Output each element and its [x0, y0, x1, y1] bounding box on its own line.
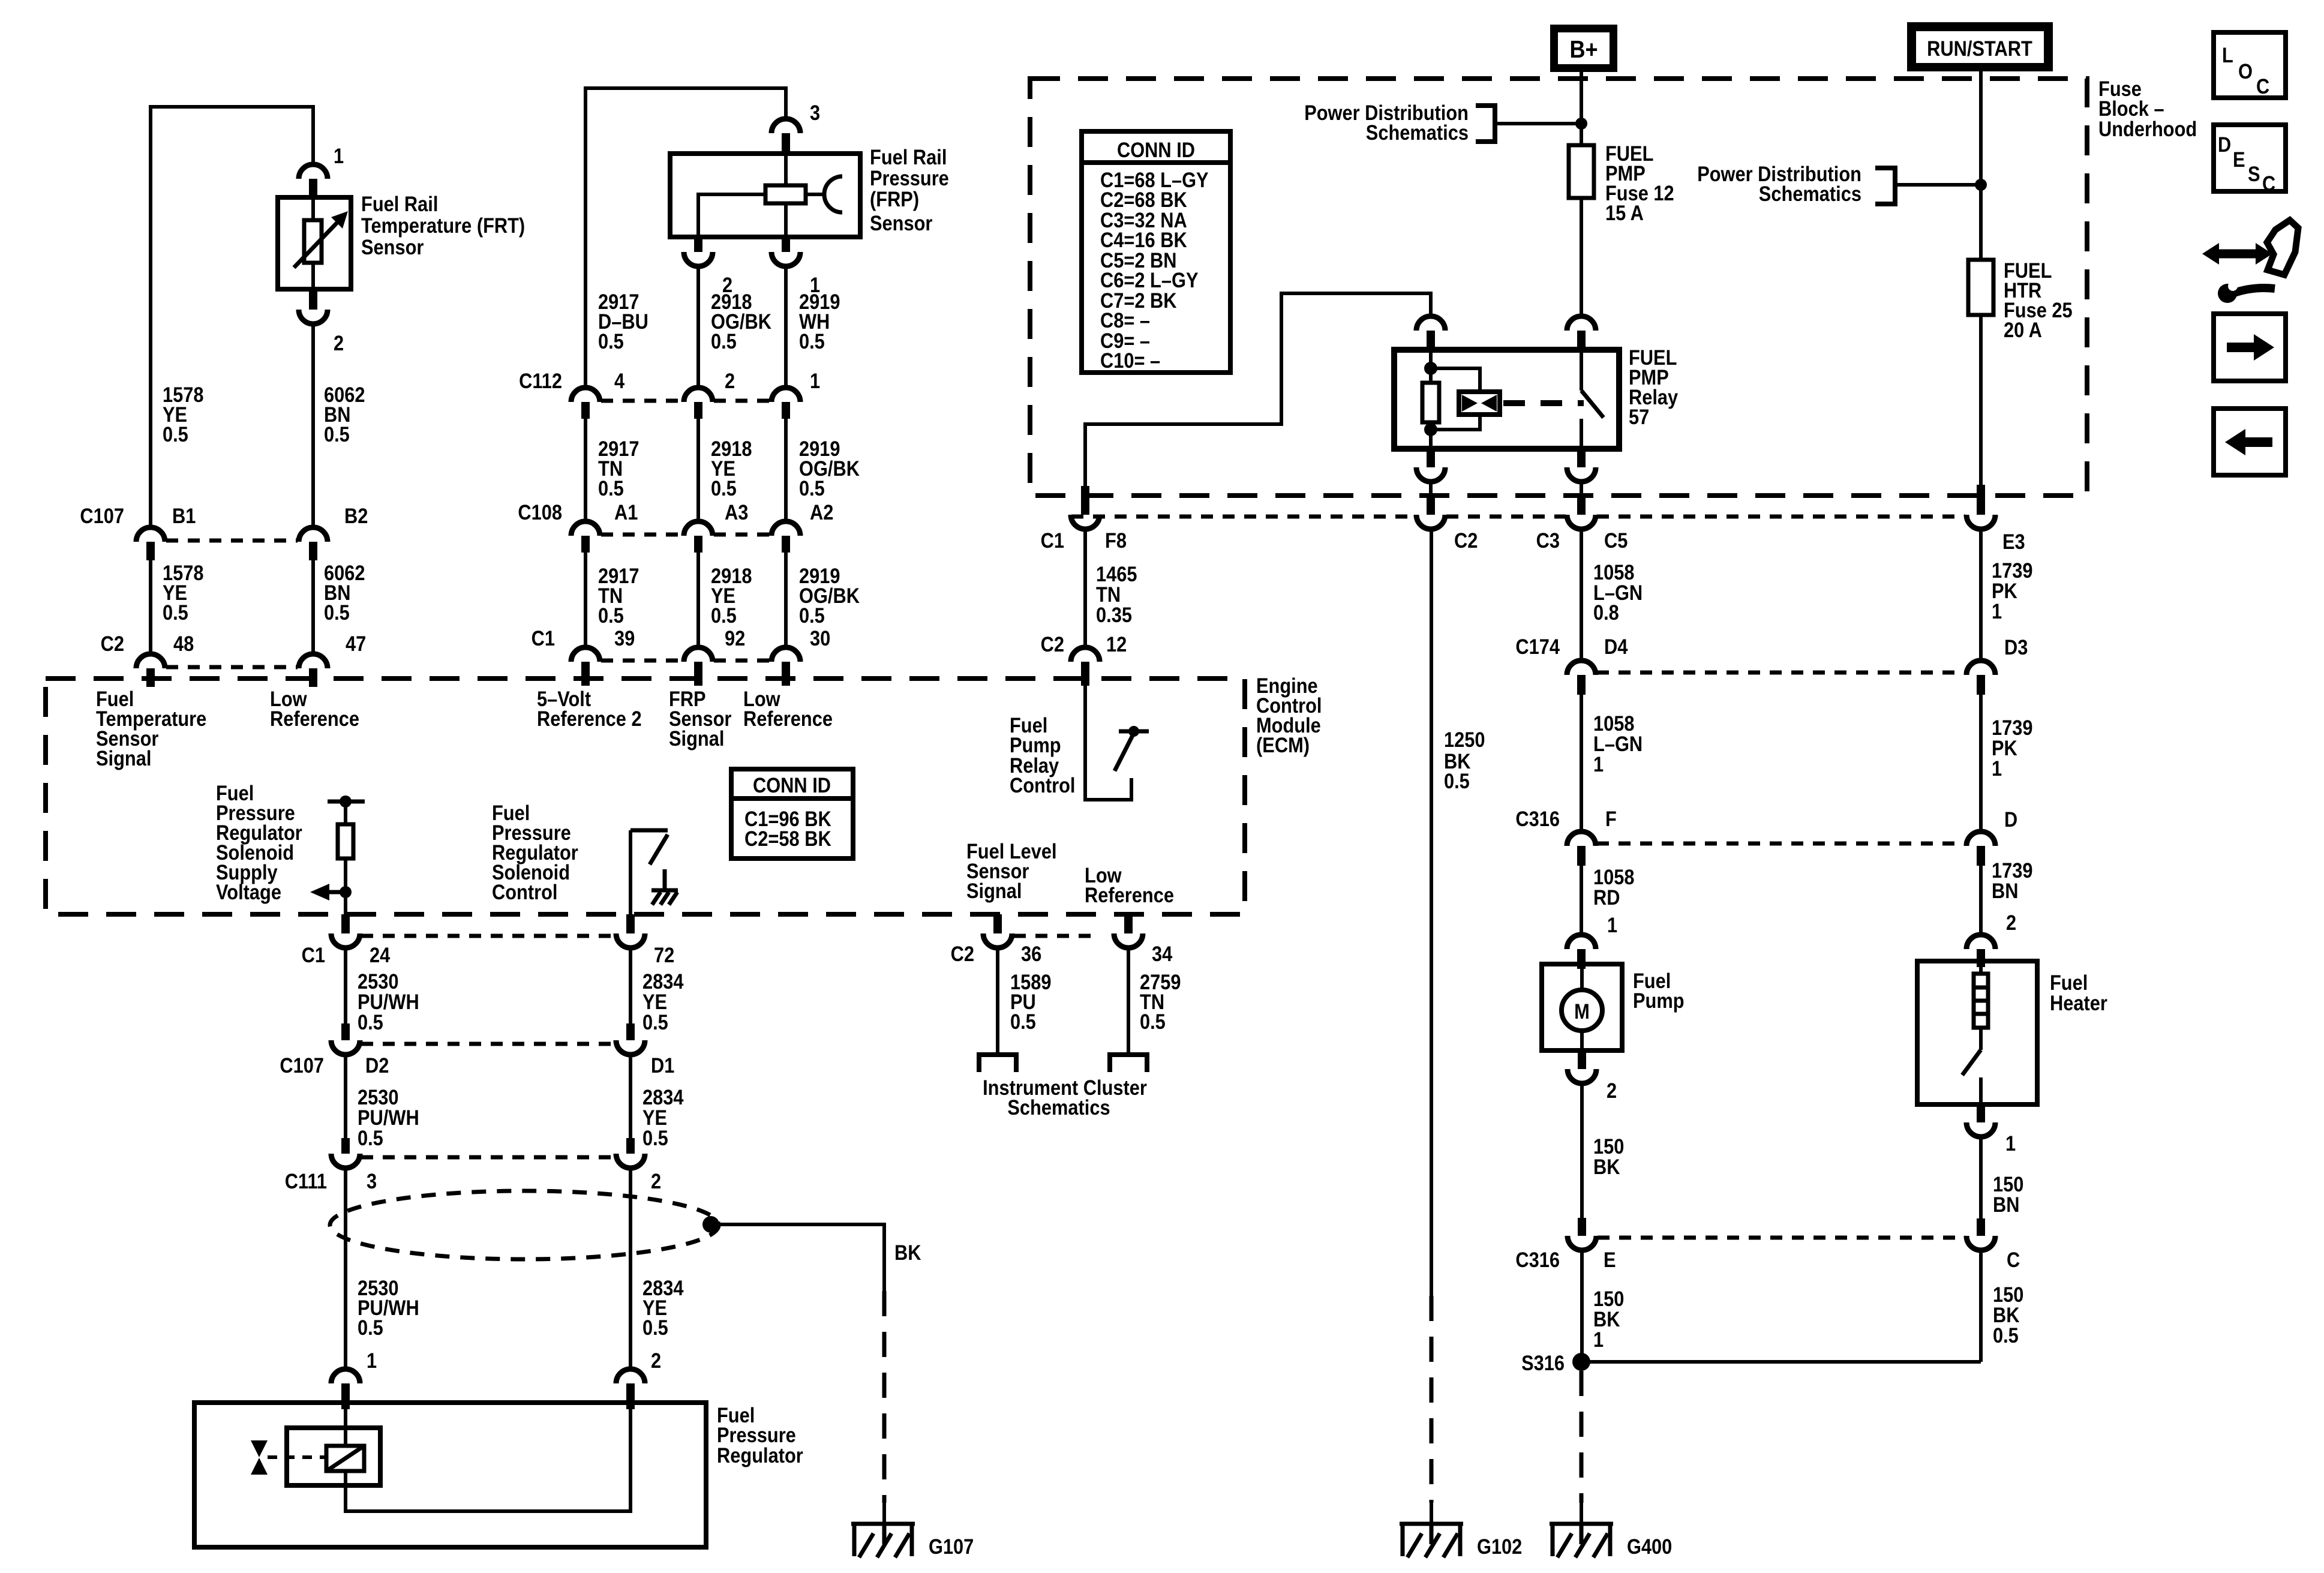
dashed connector line 48-47	[166, 665, 298, 670]
svg-text:D1: D1	[651, 1054, 674, 1077]
dashed connector line B1-B2	[166, 539, 298, 543]
fuse FUEL PMP Fuse 12 15A	[1569, 145, 1594, 198]
svg-text:BN: BN	[1992, 879, 2019, 903]
connector C112 pin 4	[571, 388, 600, 402]
connector pin 2 of FRT sensor	[309, 289, 317, 310]
connector C107 pin B2	[299, 527, 328, 542]
connector pin 3 of FRP sensor	[771, 119, 800, 133]
svg-text:Temperature (FRT): Temperature (FRT)	[361, 214, 525, 238]
connector C108 pin A2	[771, 521, 800, 536]
svg-text:2: 2	[334, 332, 344, 355]
relay coil bowtie box	[1459, 392, 1500, 415]
dashed connector line F-D	[1597, 842, 1965, 846]
svg-text:C2: C2	[951, 942, 974, 966]
svg-text:L: L	[2222, 44, 2233, 67]
svg-text:57: 57	[1629, 406, 1649, 429]
hidden wire S316 to G400	[1580, 1371, 1584, 1503]
svg-text:4: 4	[614, 370, 625, 393]
svg-text:Schematics: Schematics	[1759, 182, 1861, 206]
relay coil resistor	[1422, 383, 1439, 422]
connector C112 pin 1	[771, 388, 800, 402]
svg-text:D: D	[2004, 808, 2017, 831]
svg-text:BK: BK	[1593, 1155, 1620, 1179]
connector pin 1 of FRP sensor	[782, 237, 790, 252]
ECM CONN ID table	[731, 769, 853, 858]
dashed mechanical link valve-coil	[268, 1455, 326, 1459]
icon arrow left box	[2214, 409, 2286, 475]
svg-text:1: 1	[1593, 753, 1604, 776]
pressure port crescent	[824, 176, 842, 212]
ground G107	[882, 1503, 886, 1524]
wires below C111	[344, 1168, 347, 1369]
twisted-pair ellipse	[330, 1191, 719, 1259]
wire 1465 TN (F8 to ECM 12)	[1083, 530, 1087, 647]
wire RUN/START feed down	[1979, 71, 1983, 260]
svg-text:Control: Control	[1010, 774, 1076, 797]
connector ECM C1 pin 30	[771, 647, 800, 662]
wire 150 BN	[1979, 1137, 1983, 1218]
svg-text:Fuel Rail: Fuel Rail	[361, 193, 438, 216]
FRP sense resistor	[765, 185, 806, 203]
svg-text:BK: BK	[894, 1241, 921, 1265]
wire 2917 D-BU from C112 pin4 (left drop already drawn)	[696, 266, 700, 388]
connector relay pin 30 bottom right	[1577, 449, 1586, 467]
wire 150 BK 1 to S316	[1580, 1250, 1584, 1362]
svg-text:0.5: 0.5	[358, 1127, 383, 1150]
svg-text:48: 48	[173, 632, 194, 656]
off-page terminal pin 36	[979, 1055, 1016, 1072]
connector ECM C2 pin 47	[299, 654, 328, 668]
Fuel Pump box	[1542, 964, 1622, 1050]
svg-text:Reference: Reference	[1085, 884, 1174, 907]
wire 6062 BN from pin2 down to C107 B2	[311, 324, 315, 529]
wire 2530 PU/WH below pin 24	[344, 948, 347, 1023]
svg-text:0.5: 0.5	[642, 1127, 668, 1150]
connector fuse block C1/F8	[1081, 486, 1089, 515]
svg-text:1: 1	[367, 1349, 377, 1373]
svg-text:C: C	[2262, 172, 2275, 196]
svg-text:C2: C2	[101, 632, 124, 656]
svg-text:C316: C316	[1515, 807, 1560, 831]
svg-text:0.5: 0.5	[598, 477, 624, 500]
wire 1739 PK from E3 down	[1979, 530, 1983, 661]
connector relay switch pin (top right)	[1567, 316, 1596, 331]
fuel pump motor	[1580, 969, 1584, 1050]
wire supply branch	[344, 801, 347, 914]
svg-text:2: 2	[725, 370, 735, 393]
FRT sensor box	[278, 197, 351, 289]
Fuel Pressure Regulator box	[194, 1403, 706, 1547]
svg-text:C112: C112	[519, 370, 562, 393]
connector pin 1 of fuel heater	[1977, 1104, 1985, 1122]
FPR solenoid box	[287, 1428, 380, 1485]
wire 1578 YE below C107	[149, 560, 152, 654]
svg-text:Pump: Pump	[1633, 989, 1685, 1013]
dashed relay actuation link	[1503, 400, 1584, 406]
svg-text:C108: C108	[518, 501, 562, 524]
svg-text:2: 2	[651, 1349, 661, 1373]
svg-text:Heater: Heater	[2050, 992, 2107, 1015]
svg-text:F8: F8	[1105, 529, 1127, 553]
wire 2919 WH pin1 drop	[784, 266, 788, 388]
svg-text:RD: RD	[1593, 886, 1620, 909]
connector pin 1 of fuel pressure regulator	[331, 1369, 360, 1383]
svg-text:1: 1	[1992, 600, 2002, 623]
B+ terminal box	[1550, 25, 1617, 72]
connector fuse block C2	[1427, 496, 1435, 515]
wire fuse 25 down to E3	[1979, 315, 1983, 485]
driver rake symbol	[651, 869, 678, 905]
svg-text:3: 3	[810, 101, 820, 125]
svg-text:36: 36	[1021, 942, 1041, 966]
svg-text:20 A: 20 A	[2004, 319, 2042, 342]
svg-text:2: 2	[2006, 911, 2016, 935]
wire through FRT sensor	[311, 197, 315, 289]
dashed connector line D2-D1	[361, 1042, 614, 1046]
node S316	[1572, 1353, 1590, 1371]
icon arrow right box	[2214, 314, 2286, 381]
dashed connector line C112	[601, 399, 770, 403]
svg-text:C1: C1	[302, 944, 325, 967]
wire 1739 BN	[1979, 866, 1983, 935]
svg-text:D2: D2	[365, 1054, 389, 1077]
svg-text:0.5: 0.5	[711, 604, 737, 628]
svg-text:Underhood: Underhood	[2098, 118, 2197, 141]
svg-text:0.5: 0.5	[799, 330, 825, 353]
connector C316 pin C	[1977, 1218, 1985, 1236]
dashed connector line pins 24-72	[361, 934, 614, 938]
svg-text:Fuel Rail: Fuel Rail	[870, 146, 947, 169]
svg-text:G400: G400	[1627, 1535, 1672, 1559]
node supply voltage tap	[340, 886, 352, 898]
svg-text:0.5: 0.5	[1010, 1010, 1036, 1034]
svg-text:G107: G107	[929, 1535, 974, 1559]
svg-text:E3: E3	[2002, 530, 2025, 554]
connector relay coil pin (top left)	[1416, 316, 1445, 331]
connector ECM C1 pin 92	[684, 647, 713, 662]
svg-text:1: 1	[334, 145, 344, 168]
svg-text:BN: BN	[1993, 1193, 2020, 1217]
svg-text:0.5: 0.5	[1444, 770, 1470, 793]
connector C107 pin D2	[341, 1023, 350, 1040]
Fuel Heater box	[1917, 961, 2037, 1104]
svg-text:E: E	[2233, 148, 2245, 172]
svg-text:A2: A2	[810, 501, 833, 524]
svg-text:0.5: 0.5	[163, 423, 188, 446]
svg-text:C1: C1	[532, 627, 555, 650]
wire FRP left branch to pin2	[698, 194, 765, 237]
svg-text:39: 39	[614, 627, 635, 650]
wire relay coil feed (F8 up and over to relay pin 85)	[1085, 293, 1431, 491]
svg-text:0.5: 0.5	[642, 1011, 668, 1034]
svg-text:30: 30	[810, 627, 830, 650]
connector pin 2 of fuel pump	[1578, 1050, 1586, 1069]
svg-text:0.5: 0.5	[1140, 1010, 1166, 1034]
connector pin 2 of FRP sensor	[694, 237, 702, 252]
connector pin 1 of FRT sensor	[299, 164, 328, 179]
wire 150 BK	[1580, 1083, 1584, 1218]
svg-text:C174: C174	[1515, 635, 1560, 659]
svg-text:B+: B+	[1569, 35, 1598, 63]
svg-text:0.5: 0.5	[1993, 1324, 2019, 1347]
supply branch top bar	[328, 800, 365, 804]
svg-text:C3: C3	[1536, 529, 1560, 553]
icon LOC box	[2214, 32, 2286, 98]
wire 2759 TN to instrument cluster	[1127, 948, 1130, 1052]
dashed connector line D4-D3	[1597, 671, 1965, 675]
hidden wire to G102	[1430, 1296, 1434, 1503]
svg-text:D4: D4	[1604, 635, 1628, 659]
connector ECM C2 pin 48	[136, 654, 165, 668]
svg-text:Signal: Signal	[966, 879, 1022, 903]
connector ECM C1 pin 24	[341, 914, 350, 933]
connector C111 pin 3	[341, 1138, 350, 1154]
wire FRP right stub to pressure port	[806, 193, 824, 196]
ECM dashed box	[46, 679, 1245, 914]
driver switch blade	[650, 834, 668, 864]
connector ECM C2 pin 36	[993, 914, 1002, 933]
svg-text:C: C	[2256, 75, 2269, 98]
svg-text:0.5: 0.5	[163, 601, 188, 625]
dashed connector row line under fuse block	[1071, 515, 1965, 519]
fuse FUEL HTR Fuse 25 20A	[1968, 260, 1993, 315]
connector ECM C2 pin 34	[1124, 914, 1133, 933]
wire through solenoid	[346, 1409, 630, 1511]
svg-text:F: F	[1605, 807, 1617, 831]
svg-text:1: 1	[2005, 1132, 2016, 1155]
connector C107 pin B1	[136, 527, 165, 542]
svg-text:B2: B2	[344, 505, 368, 528]
svg-text:C107: C107	[280, 1054, 324, 1077]
hidden drain wire to G107	[882, 1291, 887, 1503]
svg-text:(FRP): (FRP)	[870, 188, 919, 211]
svg-text:1: 1	[1992, 757, 2002, 781]
svg-text:O: O	[2238, 60, 2253, 83]
wire relay 87 to fuse block edge	[1429, 482, 1433, 496]
heater element	[1979, 967, 1983, 974]
svg-text:15 A: 15 A	[1605, 202, 1644, 225]
svg-text:D3: D3	[2004, 636, 2028, 659]
svg-text:A3: A3	[725, 501, 748, 524]
svg-text:0.5: 0.5	[358, 1316, 383, 1340]
RUN/START terminal box	[1907, 22, 2053, 71]
svg-text:0.5: 0.5	[324, 423, 350, 446]
svg-text:C2: C2	[1454, 529, 1478, 553]
svg-text:34: 34	[1152, 942, 1173, 966]
svg-text:Reference: Reference	[270, 707, 359, 731]
dashed connector line C111	[361, 1155, 614, 1160]
wire bracket to B+ feed	[1495, 122, 1581, 125]
svg-text:0.5: 0.5	[642, 1316, 668, 1340]
wire 1589 PU to instrument cluster	[996, 948, 999, 1052]
wire inside FPR pin1 down	[344, 1409, 347, 1428]
connector C111 pin 2	[626, 1138, 635, 1154]
node B+ distribution tap	[1575, 118, 1587, 130]
relay control driver inside ECM	[1085, 684, 1131, 800]
svg-text:Reference: Reference	[743, 707, 833, 731]
svg-text:92: 92	[725, 627, 745, 650]
svg-text:C10= –: C10= –	[1100, 349, 1160, 373]
icon DESC box	[2214, 125, 2286, 191]
svg-text:(ECM): (ECM)	[1256, 734, 1310, 757]
svg-text:G102: G102	[1477, 1535, 1522, 1559]
wire relay 30 to fuse block edge	[1580, 482, 1583, 496]
connector ECM C1 pin 39	[571, 647, 600, 662]
wires below C107 D row	[344, 1055, 347, 1138]
wire 1058 RD	[1580, 866, 1583, 935]
connector fuse block E3	[1977, 485, 1985, 515]
svg-text:S: S	[2248, 163, 2260, 186]
svg-text:12: 12	[1106, 633, 1127, 656]
dashed connector line pins 36-34	[1014, 934, 1099, 938]
svg-text:C: C	[2007, 1248, 2020, 1272]
svg-text:72: 72	[654, 944, 674, 967]
wire 1058 L-GN from C5 down	[1580, 530, 1583, 661]
heater thermal switch	[1979, 1028, 1983, 1050]
svg-text:C111: C111	[285, 1170, 327, 1193]
svg-text:0.5: 0.5	[799, 604, 825, 628]
svg-text:CONN ID: CONN ID	[1117, 139, 1195, 162]
svg-text:0.8: 0.8	[1593, 601, 1619, 625]
svg-text:0.5: 0.5	[799, 477, 825, 500]
dashed connector line C108	[601, 533, 770, 537]
connector C108 pin A3	[684, 521, 713, 536]
wire 1058 L-GN 1	[1580, 695, 1583, 831]
icon wrench/part	[2218, 250, 2257, 259]
wire 6062 BN below C107	[311, 560, 315, 654]
svg-text:S316: S316	[1521, 1352, 1565, 1375]
FPR valve bowtie	[251, 1440, 268, 1457]
connector pin 2 of fuel pressure regulator	[616, 1369, 645, 1383]
svg-text:0.5: 0.5	[324, 601, 350, 625]
bracket Power Distribution (B+)	[1476, 106, 1495, 142]
connector C107 pin D1	[626, 1023, 635, 1040]
svg-text:0.5: 0.5	[711, 477, 737, 500]
connector C112 pin 2	[684, 388, 713, 402]
wire 2834 YE below pin 72	[629, 948, 632, 1023]
wire B+ feed down	[1580, 72, 1583, 145]
svg-text:0.35: 0.35	[1096, 604, 1132, 627]
svg-text:Reference 2: Reference 2	[537, 707, 642, 731]
svg-text:Voltage: Voltage	[216, 881, 281, 904]
connector ECM C1 pin 72	[626, 914, 635, 933]
wire bracket to RUN/START feed	[1895, 183, 1981, 187]
svg-text:Sensor: Sensor	[870, 212, 933, 235]
svg-text:RUN/START: RUN/START	[1927, 37, 2032, 61]
FRP sensor box	[670, 154, 860, 237]
svg-text:E: E	[1604, 1248, 1616, 1272]
bracket Power Distribution (RUN/START)	[1875, 168, 1895, 204]
wires below C112	[585, 419, 786, 521]
svg-text:1250: 1250	[1444, 728, 1485, 752]
svg-text:2: 2	[651, 1170, 661, 1193]
svg-text:D: D	[2218, 133, 2231, 157]
svg-text:C107: C107	[80, 505, 124, 528]
svg-text:1: 1	[1593, 1328, 1604, 1352]
svg-text:Schematics: Schematics	[1366, 121, 1469, 145]
svg-text:Signal: Signal	[96, 747, 151, 770]
node supply branch top	[340, 795, 352, 807]
thermistor arrow	[294, 223, 337, 268]
wires below C108	[585, 553, 786, 647]
svg-text:Pressure: Pressure	[870, 167, 949, 190]
svg-text:24: 24	[370, 944, 391, 967]
FPR solenoid coil slashed core	[326, 1446, 364, 1471]
wire drain BK	[711, 1224, 884, 1291]
node drain junction	[702, 1216, 719, 1233]
off-page terminal pin 34	[1110, 1055, 1147, 1072]
wire inside FRP sensor vertical	[784, 154, 788, 237]
arrow supply voltage (points left)	[329, 890, 346, 894]
svg-text:0.5: 0.5	[598, 330, 624, 353]
connector relay pin 87 bottom left	[1427, 449, 1435, 467]
ground G102	[1430, 1503, 1433, 1524]
connector C108 pin A1	[571, 521, 600, 536]
thermistor resistor in FRT sensor	[304, 220, 322, 263]
svg-text:C316: C316	[1515, 1248, 1560, 1272]
ground G400	[1580, 1503, 1583, 1524]
svg-text:0.5: 0.5	[711, 330, 737, 353]
relay coil branch wire	[1429, 350, 1433, 449]
FUEL PMP Relay box	[1394, 350, 1619, 449]
node relay coil top	[1424, 362, 1437, 375]
wire fuse to relay pin	[1580, 198, 1583, 316]
svg-text:Sensor: Sensor	[361, 236, 424, 259]
svg-text:Regulator: Regulator	[717, 1444, 803, 1467]
svg-text:1: 1	[810, 370, 820, 393]
wire 1250 BK from C2 down	[1430, 530, 1433, 1296]
relay coil parallel branch	[1431, 368, 1480, 430]
resistor in ECM supply branch	[338, 824, 353, 858]
svg-text:1: 1	[1607, 914, 1617, 937]
svg-text:C1: C1	[1041, 529, 1064, 553]
svg-text:Schematics: Schematics	[1007, 1096, 1110, 1119]
dashed connector line C1	[601, 659, 770, 663]
wire FRT loop: pin1 up over to 1578 YE drop	[151, 107, 313, 529]
svg-text:C2: C2	[1041, 633, 1064, 656]
svg-text:C2=58 BK: C2=58 BK	[744, 827, 831, 851]
connector fuse block C3/C5	[1577, 496, 1586, 515]
control branch wire and driver symbol	[629, 830, 632, 914]
svg-text:CONN ID: CONN ID	[753, 774, 831, 797]
wire 150 BK 0.5 to S316	[1979, 1250, 1983, 1362]
svg-text:2: 2	[1607, 1079, 1617, 1103]
wire S316 to fuel heater return	[1581, 1360, 1981, 1364]
svg-text:Control: Control	[492, 881, 558, 904]
node RUN/START distribution tap	[1975, 179, 1987, 191]
svg-text:0.5: 0.5	[598, 604, 624, 628]
svg-text:A1: A1	[614, 501, 638, 524]
wire FRP loop: pin3 top feed	[585, 88, 786, 388]
dashed connector line E-C	[1598, 1236, 1965, 1240]
Fuse Block dashed box	[1030, 79, 2087, 496]
svg-text:3: 3	[367, 1170, 377, 1193]
svg-text:B1: B1	[172, 505, 196, 528]
svg-text:M: M	[1574, 1000, 1590, 1023]
connector C316 pin E	[1578, 1218, 1586, 1236]
wire 1739 PK 1 (second)	[1979, 695, 1983, 831]
svg-text:Signal: Signal	[669, 727, 724, 751]
relay switch contacts and blade	[1580, 350, 1583, 391]
node relay coil bottom	[1424, 423, 1437, 436]
svg-text:0.5: 0.5	[358, 1011, 383, 1034]
CONN ID table (fuse block)	[1082, 131, 1230, 373]
svg-text:C5: C5	[1604, 529, 1628, 553]
svg-text:47: 47	[346, 632, 366, 656]
